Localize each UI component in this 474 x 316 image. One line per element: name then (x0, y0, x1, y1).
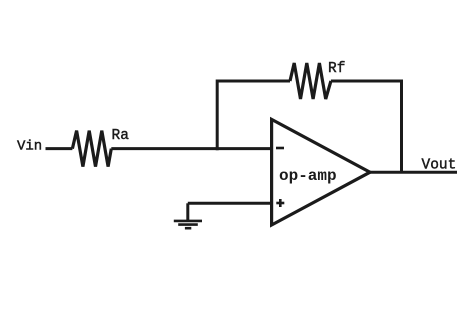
pin plus (non-inverting input) (276, 199, 284, 207)
wire Ra to op-amp inverting input (111, 147, 271, 150)
wire ground to op-amp non-inverting input (188, 202, 272, 205)
wire Vin to Ra (46, 147, 73, 150)
svg-text:op-amp: op-amp (279, 167, 337, 185)
ground (174, 221, 202, 228)
svg-text:Vin: Vin (17, 139, 42, 155)
svg-text:Vout: Vout (422, 157, 457, 173)
wire ground drop (186, 203, 189, 221)
wire output (370, 171, 457, 174)
svg-text:Rf: Rf (328, 61, 345, 77)
wire feedback left vertical and top (217, 81, 290, 150)
svg-text:Ra: Ra (112, 128, 130, 144)
pin minus (inverting input) (276, 147, 284, 150)
op-amp U1 (272, 119, 370, 225)
resistor Rf (290, 63, 331, 99)
wire Rf to right vertical (331, 81, 402, 172)
resistor Ra (72, 131, 111, 167)
